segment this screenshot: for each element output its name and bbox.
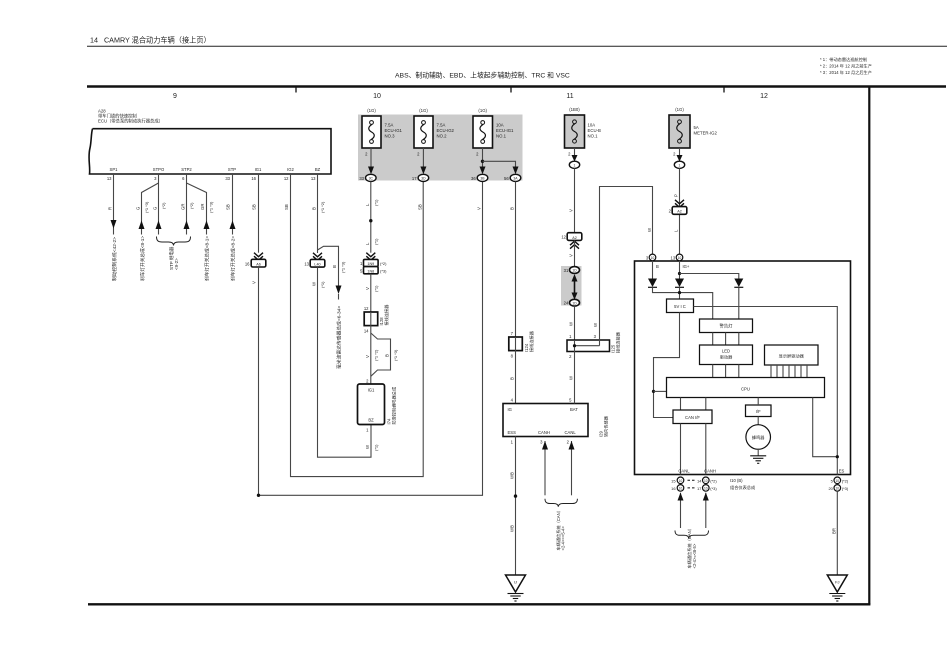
CPU right output down (813, 398, 838, 457)
svg-text:10: 10 (679, 479, 683, 483)
skid control ECU A28 box (wavy left edge, continued from previous page) (89, 129, 331, 174)
CANL wire with up arrow (571, 441, 573, 495)
svg-text:刹车灯开关总成<8-2>: 刹车灯开关总成<8-2> (230, 236, 237, 281)
svg-text:13: 13 (671, 255, 676, 260)
svg-text:蜂鸣器: 蜂鸣器 (752, 434, 765, 441)
svg-text:V: V (365, 355, 370, 358)
meter CANL circles 15/16 (677, 477, 684, 484)
gray shade behind in-line connector ovals 31/24 (561, 266, 582, 306)
fuse 7.5A ECU-IG1 NO.3 (362, 108, 403, 148)
svg-text:IG1: IG1 (368, 388, 375, 393)
svg-text:CPU: CPU (741, 386, 750, 391)
steering angle sensor I29 box (503, 404, 588, 437)
svg-text:36: 36 (471, 176, 476, 181)
svg-text:BZ: BZ (368, 418, 374, 423)
in-line connector 5 1N8 (*3) (364, 267, 379, 274)
svg-text:16: 16 (671, 486, 676, 491)
svg-text:11: 11 (566, 93, 573, 100)
branch to diode 3 (680, 274, 739, 279)
earth symbol (508, 593, 524, 595)
junction connector I124 square (509, 337, 523, 351)
svg-text:NO.1: NO.1 (588, 134, 599, 139)
svg-text:12: 12 (364, 306, 369, 311)
connector oval 24 (1D) (570, 299, 580, 306)
right page border (868, 87, 870, 605)
svg-text:24: 24 (564, 301, 569, 306)
wire IG1 long run down right and up to fuse oval 3B (259, 182, 483, 496)
svg-text:31: 31 (564, 268, 569, 273)
CPU box (667, 378, 825, 398)
brace CAN (meter) (675, 531, 709, 539)
in-line connector 2 A2 (meter) (672, 207, 687, 215)
5V IC right rail to ES (694, 307, 838, 475)
svg-text:(1G): (1G) (419, 108, 428, 113)
svg-text:SB: SB (417, 204, 422, 210)
buzzer circle 蜂鸣器 (746, 425, 771, 450)
junction dot on ESS wire (514, 494, 517, 497)
CPU to CAN I/F links (680, 398, 682, 411)
svg-text:CANL: CANL (565, 430, 577, 435)
ES circles 5/20 (834, 477, 841, 484)
svg-text:B: B (656, 264, 659, 269)
wire STPO fanout diagonal (142, 183, 159, 235)
links LED driver to CPU (712, 365, 714, 378)
svg-text:L40: L40 (314, 263, 320, 267)
wire I124 to steering sensor IG (515, 351, 517, 404)
warning light box 警告灯 (700, 319, 753, 333)
alternate wire B(*1 *3) jog (371, 333, 391, 376)
svg-text:A6: A6 (256, 262, 261, 266)
chevron into connector 1N9 (366, 253, 375, 261)
svg-text:1D: 1D (572, 269, 577, 273)
svg-text:17: 17 (697, 486, 702, 491)
svg-text:12: 12 (284, 176, 289, 181)
svg-text:56: 56 (504, 176, 509, 181)
svg-text:SB: SB (226, 204, 231, 210)
svg-text:(*1): (*1) (374, 444, 379, 451)
svg-text:13: 13 (311, 176, 316, 181)
svg-text:(*2): (*2) (189, 202, 194, 209)
svg-text:B: B (385, 354, 390, 357)
svg-text:15: 15 (671, 478, 676, 483)
svg-text:* 1：带动态雷达巡航控制: * 1：带动态雷达巡航控制 (820, 56, 867, 63)
svg-text:WB: WB (510, 525, 515, 532)
svg-text:B: B (332, 265, 337, 268)
svg-text:IG2: IG2 (287, 167, 294, 172)
svg-text:16: 16 (245, 261, 250, 266)
in-line connector 12 A2 (567, 233, 582, 241)
svg-text:12: 12 (561, 235, 566, 240)
svg-text:13: 13 (107, 176, 112, 181)
CAN I/F outputs to pins (680, 424, 682, 475)
arrow in (stop light switch) (139, 221, 145, 230)
svg-text:CANH: CANH (704, 469, 716, 474)
junction dot to CPU (652, 390, 655, 393)
connector oval (METER) (674, 161, 684, 168)
svg-text:NO.1: NO.1 (496, 134, 507, 139)
fuse 5A METER-IG2 (669, 107, 718, 148)
svg-text:17: 17 (412, 176, 417, 181)
dashes between circles (688, 479, 697, 481)
svg-text:B: B (510, 207, 515, 210)
svg-text:(1G): (1G) (478, 108, 487, 113)
svg-text:(*1 *2): (*1 *2) (320, 201, 325, 213)
wire STP2 fanout diagonal (187, 183, 207, 235)
brace for STP relay pair (157, 237, 191, 246)
junction connector I128 square (364, 312, 378, 326)
chevron into connector A6 (254, 253, 263, 261)
svg-text:(*1): (*1) (374, 199, 379, 206)
wire down (679, 168, 681, 254)
skid control buzzer box I74 (358, 384, 385, 425)
svg-text:(1B0): (1B0) (569, 107, 580, 112)
wire down to connector A2 (574, 168, 576, 232)
meter CANH circles 14/17 (703, 477, 710, 484)
diode 1 (B) (648, 279, 657, 288)
buzzer earth (757, 449, 759, 456)
connector oval 33(3C) (366, 174, 377, 181)
svg-text:(*1 *3): (*1 *3) (341, 261, 346, 273)
svg-text:STP: STP (228, 167, 236, 172)
svg-text:防滑控制蜂鸣器总成: 防滑控制蜂鸣器总成 (391, 387, 398, 425)
svg-text:NO.2: NO.2 (437, 134, 448, 139)
svg-text:1D: 1D (572, 301, 577, 305)
svg-text:IG+: IG+ (683, 264, 690, 269)
svg-text:1: 1 (574, 163, 576, 167)
svg-text:IG1: IG1 (255, 167, 262, 172)
svg-text:驱动器: 驱动器 (720, 354, 733, 361)
svg-text:14: 14 (697, 478, 702, 483)
arrow out (SP1 to brake control) (111, 220, 117, 229)
gray shade band behind ECU-IG fuses (358, 115, 523, 181)
svg-text:SB: SB (284, 204, 289, 210)
wire I125 pin2 to steering BAT (574, 352, 576, 404)
svg-text:FJ: FJ (835, 580, 839, 585)
branch wire to oval 3A (483, 161, 516, 168)
svg-text:10A: 10A (496, 123, 504, 128)
svg-text:A2: A2 (677, 210, 682, 214)
wire SP1 output (113, 174, 115, 235)
svg-text:BAT: BAT (570, 407, 578, 412)
svg-text:R: R (108, 207, 113, 210)
svg-text:7.5A: 7.5A (385, 123, 394, 128)
svg-text:20: 20 (828, 486, 833, 491)
svg-text:V: V (569, 209, 574, 212)
svg-text:BR: BR (832, 528, 837, 534)
svg-text:ECU（带总泵的制动执行器总成）: ECU（带总泵的制动执行器总成） (98, 118, 163, 125)
ruler tick 3 (723, 88, 725, 93)
earth symbol (829, 593, 845, 595)
svg-text:V: V (252, 281, 257, 284)
svg-text:<9-2>: <9-2> (174, 258, 179, 270)
wire B into diode (652, 261, 654, 279)
ground IJ triangle (506, 575, 526, 592)
diode 3 (warning light feed) (734, 279, 743, 288)
CANH wire with up arrow (544, 441, 546, 495)
wire I125 pin3 up and right to meter (600, 187, 653, 341)
svg-text:<2-4>=<5-4>: <2-4>=<5-4> (561, 526, 566, 551)
arrow in (STP relay) (156, 221, 162, 230)
in-line connector 1 1N9 (*2) (364, 259, 379, 266)
wire BZ run down, right, up into buzzer pin 1 (318, 267, 372, 457)
svg-text:(*2): (*2) (380, 261, 387, 266)
arrow in (stop light switch 2) (230, 221, 236, 230)
svg-text:(*2): (*2) (710, 478, 717, 483)
svg-text:3C: 3C (369, 177, 374, 181)
connector oval 17(3D) (418, 174, 429, 181)
svg-text:(1G): (1G) (367, 108, 376, 113)
connector oval (ECU-B) (569, 161, 579, 168)
svg-text:(*1 *3): (*1 *3) (144, 201, 149, 213)
svg-text:接线连接器: 接线连接器 (528, 330, 535, 352)
svg-text:* 2：2014 年 12 月之前生产: * 2：2014 年 12 月之前生产 (820, 63, 872, 70)
5V IC bottom rail to CAN I/F (654, 313, 680, 418)
links display driver to CPU (770, 365, 772, 378)
svg-text:ECU-IG2: ECU-IG2 (437, 128, 455, 133)
svg-text:10: 10 (704, 487, 708, 491)
svg-text:(*1): (*1) (320, 281, 325, 288)
wire fuse2 to oval (422, 148, 424, 168)
svg-text:CANH: CANH (538, 430, 550, 435)
5V IC box (667, 299, 694, 313)
wire fuse3 down with branch (482, 148, 484, 168)
svg-text:1: 1 (679, 163, 681, 167)
diode 2 (IG+) (675, 279, 684, 288)
in-line connector 13 L40 (310, 259, 325, 267)
wire STPO main (158, 174, 160, 235)
svg-text:3D: 3D (421, 177, 426, 181)
svg-text:GR: GR (200, 204, 205, 210)
svg-text:12: 12 (760, 93, 768, 100)
diode outputs joined (653, 287, 713, 319)
svg-text:V: V (365, 287, 370, 290)
meter connector circle 3(I0) (649, 254, 656, 261)
svg-text:5A: 5A (694, 125, 699, 130)
svg-text:5V I C: 5V I C (674, 304, 686, 309)
wire IG+ into diode (679, 261, 681, 279)
svg-text:刹车灯开关总成<8-1>: 刹车灯开关总成<8-1> (139, 236, 146, 281)
svg-text:B: B (510, 377, 515, 380)
wire from oval 3C down (buzzer feed) (370, 182, 372, 253)
svg-text:SB: SB (252, 204, 257, 210)
arrow in (STP relay) (184, 221, 190, 230)
ruler tick 2 (510, 88, 512, 93)
svg-text:I10 (B): I10 (B) (730, 478, 743, 483)
svg-text:ESS: ESS (508, 430, 517, 435)
CAN I/F box (673, 410, 712, 424)
svg-text:10: 10 (678, 256, 682, 260)
svg-text:(*1 *2): (*1 *2) (374, 349, 379, 361)
svg-text:9: 9 (173, 93, 177, 100)
ruler tick 1 (295, 88, 297, 93)
svg-text:METER-IG2: METER-IG2 (694, 131, 718, 136)
svg-text:IG: IG (508, 407, 512, 412)
svg-text:毫米波雷达传感器总成<6-34>: 毫米波雷达传感器总成<6-34> (336, 306, 343, 369)
wire IG1 down (258, 174, 260, 253)
svg-text:33: 33 (359, 176, 364, 181)
top ruler thick line (87, 85, 946, 87)
fuse 10A ECU-B NO.1 (565, 107, 602, 148)
svg-text:* 3：2014 年 12 月之后生产: * 3：2014 年 12 月之后生产 (820, 69, 872, 76)
svg-text:ES: ES (839, 469, 845, 474)
wire STP (232, 174, 234, 235)
svg-text:NO.3: NO.3 (385, 134, 396, 139)
wire IG2 down right and up to fuse oval 3D (291, 174, 424, 477)
svg-text:14: 14 (364, 328, 369, 333)
connector oval 36(3B) (477, 174, 488, 181)
brace CAN (steering) (545, 499, 577, 507)
wire below 1N8 (370, 274, 372, 312)
I/F box (746, 405, 772, 417)
svg-text:IJ: IJ (514, 580, 517, 585)
svg-text:ECU-IG1: ECU-IG1 (385, 128, 403, 133)
connector oval 56(3A) (510, 174, 521, 181)
wire down to I125 (574, 306, 576, 340)
svg-text:ABS、制动辅助、EBD、上坡起步辅助控制、TRC 和 VS: ABS、制动辅助、EBD、上坡起步辅助控制、TRC 和 VSC (395, 71, 570, 80)
svg-text:(*2): (*2) (842, 478, 849, 483)
svg-text:组合仪表总成: 组合仪表总成 (730, 484, 755, 491)
junction connector I125 (bus bar) (567, 340, 610, 352)
svg-text:CAN I/F: CAN I/F (685, 415, 700, 420)
ground FJ triangle (827, 575, 847, 592)
svg-text:刹车灯开关总成<8-1>: 刹车灯开关总成<8-1> (204, 236, 211, 281)
svg-text:3A: 3A (513, 177, 518, 181)
svg-text:14 CAMRY 混合动力车辆（接上页）: 14 CAMRY 混合动力车辆（接上页） (90, 36, 211, 45)
chevron up below A2 (570, 241, 579, 249)
svg-text:制动控制系统<42-2>: 制动控制系统<42-2> (111, 237, 118, 281)
junction dot IG+ branch (678, 272, 681, 275)
chevron into connector L40 (313, 253, 322, 260)
arrows between connector pair (574, 277, 576, 296)
svg-text:16: 16 (251, 176, 256, 181)
branch to radar sensor (318, 246, 339, 287)
svg-text:WB: WB (510, 472, 515, 479)
junction dot at corner (257, 494, 260, 497)
wire STP2 main (186, 174, 188, 235)
ES ground wire (836, 491, 838, 575)
svg-text:(*3): (*3) (710, 486, 717, 491)
svg-text:警告灯: 警告灯 (720, 323, 734, 330)
svg-text:10: 10 (836, 479, 840, 483)
svg-text:(*2): (*2) (161, 202, 166, 209)
wire to oval (679, 148, 681, 157)
svg-text:A2: A2 (572, 236, 577, 240)
svg-text:10: 10 (704, 479, 708, 483)
wire diode3 to warning light (738, 287, 740, 319)
in-line connector 16 A6 (251, 259, 266, 267)
svg-text:13: 13 (304, 261, 309, 266)
CANL wire up arrow from CAN bus (680, 493, 682, 528)
svg-text:(*3): (*3) (842, 486, 849, 491)
svg-text:接线连接器: 接线连接器 (383, 304, 390, 326)
svg-text:1N8: 1N8 (367, 269, 374, 273)
fuse 10A ECU-IG1 NO.1 (473, 108, 514, 148)
svg-text:7.5A: 7.5A (437, 123, 446, 128)
combination meter I10 box (635, 261, 851, 475)
wire from oval 3A down to I124 (515, 182, 517, 338)
arrow in (stop light switch) (204, 221, 210, 230)
svg-text:B: B (312, 207, 317, 210)
bottom page border (88, 603, 870, 605)
svg-text:(*1 *3): (*1 *3) (209, 201, 214, 213)
svg-text:10: 10 (679, 487, 683, 491)
svg-text:STP2: STP2 (181, 167, 192, 172)
svg-text:LED: LED (722, 349, 730, 354)
svg-text:ECU-B: ECU-B (588, 128, 602, 133)
svg-text:<2-4>=<B-5>: <2-4>=<B-5> (692, 543, 697, 568)
svg-text:P: P (674, 194, 679, 197)
svg-text:STPO: STPO (153, 167, 165, 172)
svg-text:ECU-IG1: ECU-IG1 (496, 128, 514, 133)
svg-text:33: 33 (225, 176, 230, 181)
svg-text:1N9: 1N9 (367, 262, 374, 266)
wire down to gray connector pair (574, 240, 576, 266)
svg-text:转向传感器: 转向传感器 (602, 415, 609, 437)
svg-text:SP1: SP1 (110, 167, 119, 172)
wire to oval (574, 148, 576, 157)
CANH wire up arrow from CAN bus (705, 493, 707, 528)
junction dot (369, 219, 372, 222)
svg-text:(*1): (*1) (374, 238, 379, 245)
connector oval 31 (1D) (570, 267, 580, 274)
svg-text:接线连接器: 接线连接器 (615, 331, 622, 353)
svg-text:3B: 3B (480, 177, 485, 181)
svg-text:(1G): (1G) (675, 107, 684, 112)
display driver box 显示屏驱动器 (765, 345, 819, 365)
wire fuse1 to oval (370, 148, 372, 168)
svg-text:V: V (477, 207, 482, 210)
svg-text:10A: 10A (588, 123, 596, 128)
arrow out (to radar sensor) (336, 286, 342, 295)
meter connector circle 13(I0) (676, 254, 683, 261)
svg-text:显示屏驱动器: 显示屏驱动器 (779, 352, 805, 359)
wire main V(*1 *2) to buzzer pin2 (370, 326, 372, 384)
wire ESS to ground (515, 437, 517, 576)
svg-text:(*3): (*3) (380, 268, 387, 273)
svg-text:I/F: I/F (756, 409, 761, 414)
svg-text:BZ: BZ (315, 167, 321, 172)
svg-text:GR: GR (180, 204, 185, 210)
svg-text:10: 10 (373, 93, 381, 100)
header underline (87, 45, 947, 47)
fuse 7.5A ECU-IG2 NO.2 (414, 108, 455, 148)
chevron into connector A2 (meter) (675, 200, 684, 208)
svg-text:10: 10 (651, 256, 655, 260)
svg-text:10: 10 (836, 487, 840, 491)
svg-text:CANL: CANL (678, 469, 690, 474)
links warning light to LED driver (712, 333, 714, 346)
LED driver box LED驱动器 (700, 345, 753, 365)
svg-text:(*1): (*1) (374, 285, 379, 292)
svg-text:(*1 *3): (*1 *3) (393, 349, 398, 361)
wire BZ down (317, 174, 319, 253)
svg-text:V: V (569, 254, 574, 257)
